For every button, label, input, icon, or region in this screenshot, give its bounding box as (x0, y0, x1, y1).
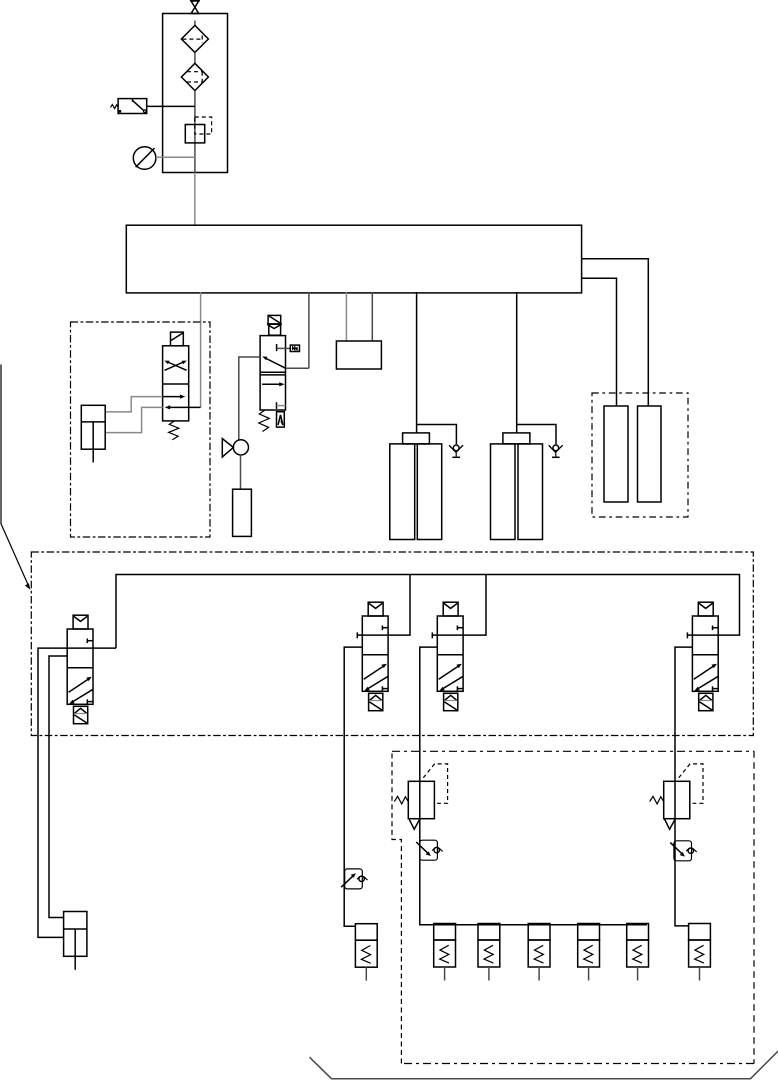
tank pair 2 cap (503, 433, 530, 444)
valve B exhaust muffler (small box) (290, 345, 299, 351)
valve V1 body (67, 629, 93, 704)
wire pressure switch to unit (147, 105, 195, 107)
valve A crossed arrows (164, 361, 187, 371)
supply rail (116, 575, 740, 649)
wire manifold to tank pair 2 (516, 292, 518, 433)
wire V3 supply (463, 575, 486, 636)
tank 2b (518, 444, 543, 540)
valve V3 flow arrows (439, 664, 463, 691)
tank 1b (417, 444, 441, 540)
wire manifold to vacuum valve B (308, 292, 310, 368)
wire branch to relief valve 1 (417, 425, 457, 445)
wire branch to relief valve 2 (517, 425, 556, 445)
gripper group enclosure (dashed) (392, 751, 754, 1063)
valve V1 blocked port bottom (87, 699, 93, 704)
valve V4 pilot cap (698, 602, 713, 616)
valve V3 blocked port left (432, 632, 437, 638)
valve B blocked port top (277, 344, 291, 351)
flow control F2 (670, 841, 696, 861)
wire valve B to vacuum generator (239, 357, 260, 440)
shutoff valve at air inlet (190, 1, 200, 14)
valve V4 body (692, 616, 718, 691)
pressure switch PS (111, 99, 147, 114)
valve B pilot box (277, 412, 285, 427)
regulator pilot box (dashed) (195, 117, 212, 134)
valve V3 blocked port top (457, 626, 463, 631)
valve B return spring (259, 410, 270, 432)
valve V4 spring cap (699, 693, 713, 710)
valve island enclosure (dash-dot) (31, 552, 753, 736)
relief valve 2 (549, 445, 563, 457)
spare tank right (638, 406, 662, 502)
vacuum silencer (233, 489, 252, 536)
filter F1 (181, 25, 208, 52)
wire filter F1 to F2 (194, 52, 196, 63)
wire V1 port B to cylinder (49, 656, 67, 918)
wire manifold to blank station right (371, 292, 373, 341)
wire service unit to manifold (194, 173, 196, 226)
wire gauge to unit (156, 156, 195, 158)
valve V2 flow arrows (364, 664, 388, 691)
valve V2 blocked port top (382, 626, 388, 631)
muffler M5 (578, 924, 600, 981)
valve V1 blocked port top (87, 639, 93, 644)
valve B blocked port bottom (277, 402, 286, 409)
wire manifold to blank station left (gray) (345, 292, 347, 341)
wire cylinder A port 1 (gray) (105, 397, 162, 412)
wire V1 port A to cylinder (38, 648, 67, 937)
valve A flow arrow left + supply link (165, 405, 201, 409)
vacuum generator (ejector) (222, 439, 248, 457)
valve V4 blocked port left (687, 632, 692, 638)
tank 2a (491, 444, 516, 540)
muffler M2 (434, 924, 456, 981)
valve B body (260, 336, 285, 410)
valve V4 blocked port top (713, 626, 719, 631)
cylinder A (81, 405, 105, 462)
valve V1 flow arrows (69, 677, 93, 704)
tank pair 1 cap (403, 433, 430, 444)
valve V2 blocked port bottom (382, 686, 388, 691)
wire manifold right output 2 (582, 278, 617, 406)
valve A return spring (169, 421, 179, 440)
valve V1 pilot cap (73, 615, 88, 629)
flow control F3 (341, 869, 367, 889)
blanking station box (336, 341, 381, 369)
tank 1a (390, 444, 415, 540)
wire V3 to regulator R1 and muffler bus (420, 647, 647, 925)
valve V2 pilot cap (368, 602, 383, 616)
valve B flow arrow (262, 382, 285, 386)
manifold distribution block (126, 225, 581, 293)
muffler M7 (689, 924, 711, 981)
wire V4 to regulator R2 and muffler M7 (675, 647, 692, 926)
wire V1 supply (93, 647, 116, 649)
pressure regulator R2 (650, 764, 703, 829)
valve B flow diagonal (262, 356, 285, 368)
pressure regulator R1 (394, 764, 447, 829)
wire ejector to silencer (240, 455, 242, 489)
sub-assembly enclosure (dash-dot) (71, 322, 211, 537)
valve V3 blocked port bottom (457, 686, 463, 691)
valve V2 blocked port left (357, 632, 362, 638)
pressure gauge (133, 147, 156, 170)
wire valve B supply (286, 367, 309, 369)
callout leader arrow (1, 364, 30, 589)
muffler M3 (478, 924, 500, 981)
drawing frame bottom edge (310, 1051, 778, 1079)
wire manifold right output 1 (582, 259, 649, 406)
wire manifold to tank pair 1 (416, 292, 418, 433)
spare outputs enclosure (dashed) (592, 393, 688, 517)
wire manifold to pilot valve A (gray) (200, 292, 202, 407)
wire V2 to flow control F3 (344, 647, 362, 926)
cylinder C2 (bottom left) (64, 912, 87, 970)
muffler M1 (355, 924, 377, 981)
valve V1 spring cap (74, 706, 88, 723)
valve V4 blocked port bottom (713, 686, 719, 691)
air service unit enclosure (163, 14, 228, 173)
muffler M4 (528, 924, 550, 981)
valve V3 body (437, 616, 463, 691)
valve V3 pilot cap (443, 602, 458, 616)
valve A body (163, 346, 189, 421)
spare tank left (604, 406, 628, 502)
regulator in service unit (185, 125, 204, 143)
wire F2 to regulator (194, 91, 196, 173)
muffler M6 (627, 924, 649, 981)
valve V3 spring cap (444, 693, 458, 710)
filter F2 (separator) (181, 63, 208, 90)
service unit internal line (194, 21, 196, 26)
solenoid of valve A (171, 332, 184, 346)
valve V2 body (362, 616, 388, 691)
wire cylinder A port 2 (gray) (105, 407, 162, 432)
valve V4 flow arrows (694, 664, 718, 691)
flow control F1 (416, 840, 442, 860)
valve A flow arrow right (163, 395, 186, 399)
valve V2 spring cap (369, 693, 383, 710)
solenoid of valve B (267, 315, 282, 335)
relief valve 1 (449, 445, 463, 457)
wire V2 supply (388, 575, 410, 636)
